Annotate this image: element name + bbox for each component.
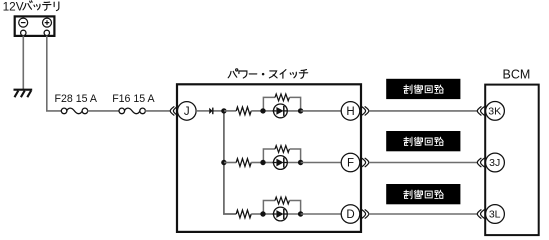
wire fuse F28 to fuse F16 <box>88 110 120 112</box>
parallel resistor row 2 <box>275 146 289 153</box>
circled diode row 3 <box>273 207 288 221</box>
wire resistor to parallel block row 2 <box>251 162 263 164</box>
vertical bus wire (node A down to row 3) <box>224 111 236 214</box>
ground (chassis) <box>14 90 33 98</box>
wire resistor to parallel block row 1 <box>251 110 263 112</box>
wire F to BCM 3J <box>369 162 477 164</box>
svg-text:F: F <box>347 158 354 170</box>
connector chevrons after H <box>362 107 369 115</box>
fuse F16 15A <box>119 108 145 114</box>
wire H to BCM 3K <box>369 110 477 112</box>
wire into circled diode row 2 <box>263 162 276 164</box>
parallel resistor row 1 <box>275 94 289 101</box>
svg-text:3K: 3K <box>488 106 501 118</box>
parallel loop (riser wires) row 2 <box>263 149 300 163</box>
wire bus corner to resistor row 3 (already drawn with bus); resistor row 3 <box>236 210 251 218</box>
junction node B (bus to row 2) <box>221 160 226 165</box>
wire battery positive terminal to fuse F28 <box>47 36 62 111</box>
parallel resistor row 3 <box>275 197 289 204</box>
junction dot left of block row 1 <box>260 108 265 113</box>
svg-text:BCM: BCM <box>503 67 531 81</box>
label パワー・スイッチ <box>228 69 307 79</box>
connector pin J <box>178 102 197 121</box>
wire node A to resistor row 1 <box>224 110 236 112</box>
wire D to BCM 3L <box>369 213 477 215</box>
BCM box <box>485 85 539 236</box>
svg-text:3L: 3L <box>489 209 501 221</box>
connector pin 3L <box>486 205 505 224</box>
connector pin F <box>341 153 360 172</box>
control circuit box row 2 <box>386 131 460 151</box>
junction dot right of block row 3 <box>298 211 303 216</box>
wire resistor to parallel block row 3 <box>251 213 263 215</box>
circled diode row 2 <box>273 156 288 170</box>
connector chevrons after D <box>362 210 369 218</box>
parallel loop (riser wires) row 1 <box>263 97 300 111</box>
resistor row 2 <box>236 159 251 167</box>
connector pin H <box>341 102 360 121</box>
diode (series, after J) <box>209 108 213 115</box>
svg-text:D: D <box>346 209 354 221</box>
connector pin 3J <box>486 153 505 172</box>
svg-text:12V: 12V <box>3 0 24 13</box>
svg-text:3J: 3J <box>489 157 500 169</box>
svg-text:H: H <box>346 106 354 118</box>
parallel loop (riser wires) row 3 <box>263 201 300 215</box>
svg-text:J: J <box>184 106 190 118</box>
battery 12V <box>15 16 55 36</box>
connector chevrons after F <box>362 158 369 166</box>
connector chevrons at BCM 3K <box>477 107 484 115</box>
wire J to diode <box>196 110 209 112</box>
connector pin 3K <box>486 102 505 121</box>
wire fuse F16 to power switch connector J <box>145 110 170 112</box>
connector chevrons at BCM 3J <box>477 158 484 166</box>
junction dot right of block row 1 <box>298 108 303 113</box>
wire battery negative terminal to ground <box>22 36 24 89</box>
connector chevrons at BCM 3L <box>477 210 484 218</box>
control circuit box row 1 <box>386 79 460 99</box>
wire into circled diode row 1 <box>263 110 276 112</box>
power switch box <box>177 84 361 232</box>
wire into circled diode row 3 <box>263 213 276 215</box>
junction dot right of block row 2 <box>298 160 303 165</box>
fuse F28 15A <box>61 108 87 114</box>
junction dot left of block row 3 <box>260 211 265 216</box>
label 12Vバッテリ <box>3 0 59 13</box>
wire node B to resistor row 2 <box>224 162 236 164</box>
junction dot left of block row 2 <box>260 160 265 165</box>
circled diode row 1 <box>273 104 288 118</box>
junction node A <box>221 108 226 113</box>
svg-text:F28 15 A: F28 15 A <box>55 93 98 105</box>
wire block to connector H <box>301 110 342 112</box>
resistor row 1 <box>236 107 251 115</box>
wire diode to node A <box>214 110 225 112</box>
wire block to connector D <box>301 213 342 215</box>
wire block to connector F <box>301 162 342 164</box>
connector chevrons at J (harness side) <box>170 107 177 115</box>
svg-text:F16 15 A: F16 15 A <box>112 93 155 105</box>
control circuit box row 3 <box>386 184 460 204</box>
connector pin D <box>341 205 360 224</box>
